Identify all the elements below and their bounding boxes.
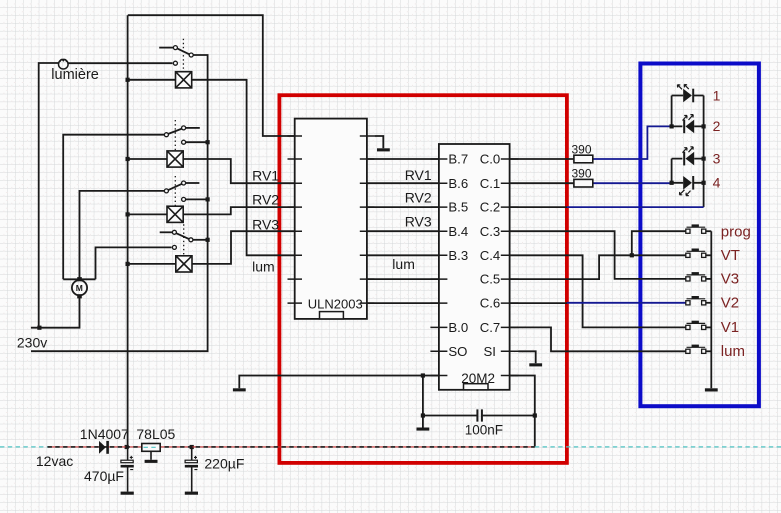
capacitor C2 220uF xyxy=(185,447,198,495)
junction node lamp return xyxy=(37,326,41,330)
pushbutton V2 xyxy=(686,296,706,305)
switch1 contact A xyxy=(173,46,177,50)
wire ULN to 20M2 row6 xyxy=(367,278,439,280)
pushbutton V3 xyxy=(686,272,706,281)
relay coil RL1 xyxy=(176,72,192,88)
wire switch2 stub xyxy=(186,127,200,129)
svg-text:prog: prog xyxy=(721,223,751,240)
wire button V2 right lead xyxy=(706,302,712,304)
svg-text:C.6: C.6 xyxy=(480,296,501,311)
wire net C.2 to LED common xyxy=(567,206,704,208)
junction node rail-bus xyxy=(125,445,129,449)
junction node 100nF right xyxy=(533,413,537,417)
svg-text:B.5: B.5 xyxy=(448,200,468,215)
svg-text:390: 390 xyxy=(572,166,592,180)
IC U2 PICAXE 20M2 body xyxy=(439,144,510,390)
switch2 contact up xyxy=(182,126,186,130)
wire switch4 lower contact to motor top xyxy=(96,247,172,279)
wire switch2 common to motor top xyxy=(63,135,164,280)
wire C.4 to button V1 xyxy=(510,255,686,327)
svg-text:2: 2 xyxy=(713,118,721,134)
20M2 bottom notch xyxy=(464,384,489,390)
pushbutton VT xyxy=(686,249,706,258)
LED D3 xyxy=(683,152,694,166)
wire top supply rail to ULN pin1 xyxy=(128,15,302,136)
wire LED4 leads xyxy=(672,182,704,184)
wire RV3 ULN to B.4 xyxy=(367,230,439,232)
svg-text:470µF: 470µF xyxy=(84,468,124,484)
svg-text:RV3: RV3 xyxy=(405,213,432,229)
wire button V1 right lead xyxy=(706,326,712,328)
ULN pin stubs left side xyxy=(288,136,303,303)
wire relay RL1 coil to ULN output lum xyxy=(192,80,302,256)
switch2 common contact xyxy=(164,133,168,137)
wire SI pin to ground xyxy=(519,351,536,363)
svg-text:230v: 230v xyxy=(17,334,47,350)
relay RL2 actuating link xyxy=(174,120,176,151)
wire LED1 leads xyxy=(672,95,704,97)
svg-text:RV1: RV1 xyxy=(252,167,279,183)
capacitor C3 100nF xyxy=(477,409,482,421)
wire relay RL3 coil to ULN output RV2 xyxy=(183,207,302,214)
junction node 100nF left xyxy=(421,413,425,417)
wire button V3 right lead xyxy=(706,278,712,280)
svg-text:C.3: C.3 xyxy=(480,224,501,239)
wire button prog branch xyxy=(632,231,686,255)
wire 20M2 V+ pin to rail xyxy=(510,376,535,447)
wire C.7 to button lum xyxy=(510,327,686,351)
wire net C.6 to button V2 xyxy=(567,302,686,304)
wire net C.0 resistor to LED pair 1-2 xyxy=(593,126,670,159)
wire LED3-LED4 anode link xyxy=(671,159,673,183)
switch4 contact A xyxy=(172,230,176,234)
svg-text:C.5: C.5 xyxy=(480,272,501,287)
svg-text:lum: lum xyxy=(252,259,275,275)
wire switch3 lower contact to bus xyxy=(186,198,208,200)
wire C.2 to red box edge xyxy=(510,206,567,208)
wire left +12V bus xyxy=(127,15,129,447)
wire 20M2 0V pin to ground xyxy=(239,376,439,389)
wire switch4 lever xyxy=(176,233,190,239)
ground 78L05 xyxy=(150,451,152,460)
ULN2003 bottom notch xyxy=(320,312,344,319)
svg-text:SO: SO xyxy=(448,344,467,359)
svg-text:C.4: C.4 xyxy=(480,248,501,263)
pushbutton prog xyxy=(686,224,706,233)
svg-text:390: 390 xyxy=(572,143,592,157)
switch3 common contact xyxy=(164,189,168,193)
wire LED1-LED2 anode link xyxy=(671,96,673,127)
wire RV1 ULN to B.6 xyxy=(367,182,439,184)
wire net C.1 resistor to LED pair 3-4 xyxy=(593,182,670,184)
svg-text:4: 4 xyxy=(713,175,721,191)
junction node 0V pin xyxy=(421,373,425,377)
svg-text:78L05: 78L05 xyxy=(136,426,175,442)
svg-text:220µF: 220µF xyxy=(204,456,244,472)
junction node bus-RL2 xyxy=(126,157,130,161)
LED D2 xyxy=(683,120,694,134)
junction node sw4-bus xyxy=(206,238,210,242)
wire LED3 leads xyxy=(672,158,704,160)
wire relay RL4 coil left to bus xyxy=(128,263,176,265)
wire ULN to 20M2 B.7 xyxy=(367,158,439,160)
wire switch2 lower contact to bus xyxy=(186,141,208,143)
svg-text:B.3: B.3 xyxy=(448,248,468,263)
wire 12vac rail dashed xyxy=(48,446,535,448)
junction node LED2 right xyxy=(702,124,706,128)
ground 100nF xyxy=(417,428,430,431)
relay RL4 actuating link xyxy=(183,224,185,256)
diode D5 1N4007 xyxy=(99,441,109,454)
relay RL1 actuating link xyxy=(182,39,184,72)
resistor R1 390 xyxy=(574,155,593,163)
guide line cyan dashed xyxy=(0,446,781,448)
wire switch4 stub xyxy=(160,231,173,233)
svg-text:1N4007: 1N4007 xyxy=(80,426,129,442)
switch3 contact down xyxy=(182,197,186,201)
wire relay RL2 coil left to bus xyxy=(128,158,167,160)
red group box around ICs xyxy=(279,95,567,463)
20M2 pin stubs left side xyxy=(430,159,447,376)
wire C.3 to button V3 xyxy=(510,231,686,279)
svg-text:1: 1 xyxy=(713,87,721,103)
wire relay RL4 coil to ULN output RV3 xyxy=(192,231,302,264)
svg-text:100nF: 100nF xyxy=(465,423,503,438)
junction node prog-VT xyxy=(630,253,634,257)
wire switch3 common to motor top xyxy=(80,191,165,279)
junction node sw3-bus xyxy=(206,197,210,201)
resistor R2 390 xyxy=(574,179,593,187)
svg-text:ULN2003: ULN2003 xyxy=(308,297,363,312)
relay coil RL3 xyxy=(167,206,183,222)
wire switch1 moving contact lever xyxy=(177,48,190,54)
ULN pin stubs right side xyxy=(360,136,375,303)
junction node LED3 right xyxy=(702,157,706,161)
relay RL3 actuating link xyxy=(174,176,176,206)
ground ULN pin1 xyxy=(377,148,390,151)
junction node LED4 left xyxy=(670,181,674,185)
wire ULN to 20M2 row7 xyxy=(367,302,439,304)
wire switch3 lever xyxy=(168,184,182,190)
pushbutton V1 xyxy=(686,321,706,330)
svg-text:lum: lum xyxy=(392,256,415,272)
switch1 contact C xyxy=(173,61,177,65)
wire 100nF left lead xyxy=(423,415,477,417)
wire lamp right to relay1 switch contact xyxy=(68,62,173,64)
capacitor C1 470uF xyxy=(121,447,134,495)
wire C.6 to red box edge xyxy=(510,302,567,304)
junction node bus-RL4 xyxy=(126,262,130,266)
junction node bus-RL3 xyxy=(126,212,130,216)
junction node rail-220uF xyxy=(190,445,194,449)
wire C.0 to resistor xyxy=(510,158,574,160)
wire relay RL3 coil left to bus xyxy=(128,213,167,215)
wire 100nF right lead xyxy=(483,415,535,417)
wire switch3 stub xyxy=(186,182,200,184)
svg-text:C.0: C.0 xyxy=(480,152,501,167)
blue group box around LEDs and buttons xyxy=(640,64,759,407)
svg-text:C.2: C.2 xyxy=(480,200,501,215)
ground buttons common xyxy=(705,388,718,391)
wire motor top node xyxy=(63,278,95,280)
regulator 78L05 xyxy=(142,444,160,452)
wire 100nF ground branch xyxy=(422,376,424,428)
svg-text:B.7: B.7 xyxy=(448,152,468,167)
wire switch4 moving contact to bus xyxy=(193,239,208,241)
LED D4 xyxy=(683,176,694,190)
wire LED common vertical xyxy=(703,96,705,208)
wire button prog right lead xyxy=(706,230,712,232)
wire switch1 stub xyxy=(159,47,173,49)
junction node bus-RL1 xyxy=(126,78,130,82)
svg-text:lumière: lumière xyxy=(51,67,99,83)
svg-text:SI: SI xyxy=(484,344,496,359)
svg-text:3: 3 xyxy=(713,150,721,166)
svg-text:C.7: C.7 xyxy=(480,320,501,335)
svg-text:C.1: C.1 xyxy=(480,176,501,191)
wire button VT right lead xyxy=(706,254,712,256)
svg-text:RV1: RV1 xyxy=(405,167,432,183)
wire switch2 lever xyxy=(168,129,182,134)
svg-text:B.6: B.6 xyxy=(448,176,468,191)
switch4 contact B xyxy=(189,238,193,242)
wire C.5 to button VT xyxy=(510,255,686,279)
svg-text:20M2: 20M2 xyxy=(461,371,495,386)
wire relay RL1 coil left to bus xyxy=(128,79,176,81)
svg-text:V1: V1 xyxy=(721,319,739,336)
svg-text:B.0: B.0 xyxy=(448,320,468,335)
lamp lumière xyxy=(59,59,69,69)
motor M xyxy=(72,280,87,295)
svg-text:VT: VT xyxy=(721,247,740,264)
wire buttons common to ground xyxy=(710,231,712,388)
svg-text:V2: V2 xyxy=(721,295,739,312)
switch1 contact B xyxy=(189,53,193,57)
junction node LED2 left xyxy=(670,124,674,128)
wire RV2 ULN to B.5 xyxy=(367,206,439,208)
svg-text:RV3: RV3 xyxy=(252,217,279,233)
svg-text:lum: lum xyxy=(721,343,745,360)
svg-text:B.4: B.4 xyxy=(448,224,468,239)
svg-text:12vac: 12vac xyxy=(36,453,73,469)
wire 12vac rail highlighted red xyxy=(48,446,535,448)
LED D1 xyxy=(683,89,694,103)
wire button lum right lead xyxy=(706,350,712,352)
IC U1 ULN2003 body xyxy=(295,119,367,319)
svg-text:RV2: RV2 xyxy=(405,190,432,206)
20M2 pin stubs right side xyxy=(501,159,519,376)
wire relay RL2 coil to ULN output RV1 xyxy=(183,159,302,183)
svg-text:V3: V3 xyxy=(721,271,739,288)
switch4 contact C xyxy=(172,245,176,249)
svg-text:M: M xyxy=(76,283,83,293)
wire ULN pin1 to ground xyxy=(374,136,383,148)
ground SI xyxy=(529,363,542,366)
wire LED2 leads xyxy=(672,125,704,127)
svg-text:RV2: RV2 xyxy=(252,192,279,208)
junction node sw2-bus xyxy=(206,140,210,144)
relay coil RL2 xyxy=(167,151,183,167)
junction node LED4 right xyxy=(702,181,706,185)
pushbutton lum xyxy=(686,345,706,354)
relay coil RL4 xyxy=(176,256,192,272)
switch3 contact up xyxy=(182,181,186,185)
wire 230v live to switch commons bus xyxy=(31,55,208,351)
ground 20M2 0V xyxy=(233,388,246,391)
wire C.1 to resistor xyxy=(510,182,574,184)
wire lum ULN to B.3 xyxy=(367,254,439,256)
switch2 contact down xyxy=(182,140,186,144)
wire 230v return to motor bottom xyxy=(31,295,80,328)
wire lamp left to 230v return xyxy=(39,63,59,328)
